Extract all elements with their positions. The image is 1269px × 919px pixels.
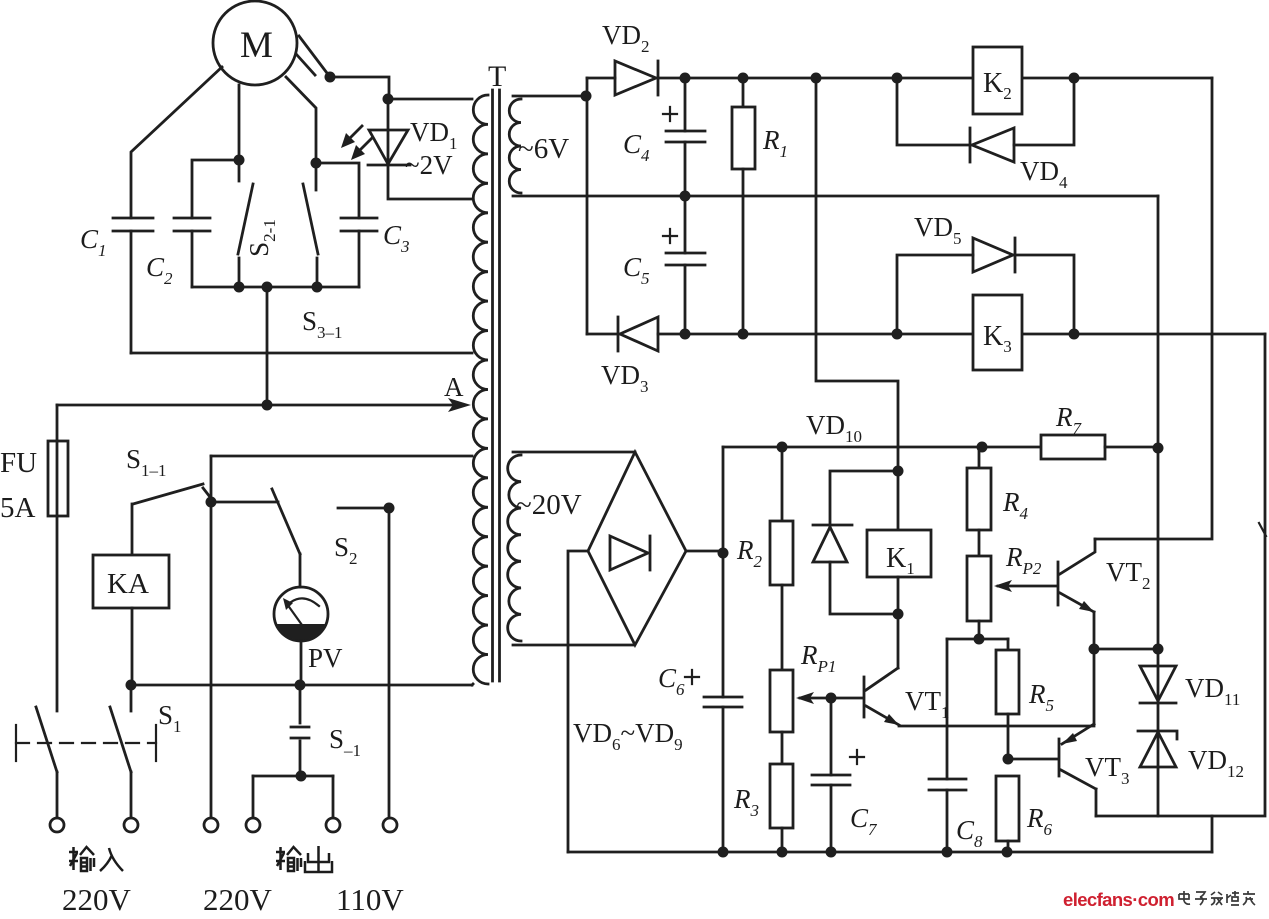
svg-text:5A: 5A [0, 492, 36, 524]
zener VD12 [1138, 731, 1177, 767]
diode VD5 [897, 238, 1074, 334]
terminal 2 [124, 818, 138, 832]
diode VD2 [587, 61, 658, 95]
wire fuse to S1 left pole [56, 516, 59, 711]
diode VD4 [897, 78, 1074, 162]
transformer secondary ~6V winding [509, 99, 521, 193]
wire output tee [253, 776, 333, 818]
diode VD3 [587, 317, 658, 351]
relay K3 [973, 295, 1022, 370]
label shuru (input) hanzi [69, 847, 123, 871]
capacitor C8 [929, 639, 966, 852]
svg-text:PV: PV [308, 643, 343, 673]
motor M [213, 1, 297, 85]
watermark hanzi dianzifashaoyou [1179, 891, 1255, 905]
terminal 6 [383, 818, 397, 832]
wire 110V output branch [388, 508, 391, 818]
switch S1 pole left [36, 707, 57, 818]
terminal 4 [246, 818, 260, 832]
photodiode VD1 [341, 99, 410, 165]
wire bottom rail [568, 851, 1212, 854]
transistor VT3 [1059, 649, 1096, 816]
capacitor C5 [663, 196, 705, 334]
switch S1-1 [133, 484, 210, 504]
wire motor right lead [286, 77, 316, 163]
transistor VT1 [831, 614, 1094, 726]
relay K2 [973, 47, 1022, 114]
terminal 3 [204, 818, 218, 832]
wire VT3 base [1008, 758, 1057, 761]
wire brush to node [330, 77, 389, 99]
wire 220V output branch [210, 456, 213, 818]
capacitor C4 [663, 78, 705, 196]
terminal 5 [326, 818, 340, 832]
switch S2 blade [272, 489, 300, 554]
resistor R6 [996, 776, 1019, 852]
switch S1 pole right [110, 685, 131, 818]
relay K1 [867, 530, 931, 614]
svg-text:FU: FU [0, 447, 37, 479]
wire 20V bottom lead [513, 644, 634, 647]
wire mid-rail drop to VD11 chain [1157, 196, 1160, 816]
wire A-line down to fuse [56, 405, 59, 441]
wire RP2 bottom tee [947, 638, 1008, 641]
diode VD11 [1140, 666, 1176, 703]
relay coil KA [93, 504, 169, 685]
wire motor left lead to C1 [131, 67, 222, 218]
resistor R5 [996, 639, 1019, 759]
terminal 1 [50, 818, 64, 832]
capacitor C3 [316, 163, 377, 287]
transformer T primary winding [473, 95, 488, 684]
wire 6V top vertical [586, 78, 589, 334]
svg-text:KA: KA [107, 568, 149, 600]
wire K3 rail right drop [1096, 334, 1265, 816]
potentiometer RP1 [770, 670, 831, 732]
svg-text:elecfans·com: elecfans·com [1063, 889, 1174, 910]
transistor VT2 [1058, 539, 1095, 649]
svg-text:T: T [488, 60, 506, 93]
fuse FU 5A [48, 441, 68, 516]
wire bottom rail to transformer [130, 684, 472, 687]
svg-text:220V: 220V [62, 882, 132, 917]
svg-text:110V: 110V [336, 882, 404, 917]
wire right drop to VT2 collector [1095, 78, 1212, 539]
label shuchu (output) hanzi [276, 846, 332, 872]
wire VD10 rail [723, 446, 1041, 449]
wire switch common bottom [192, 286, 359, 289]
switch S2-1 [238, 160, 253, 287]
node A wire with arrow [57, 398, 471, 412]
potentiometer RP2 [967, 556, 1056, 639]
wire node to transformer top [388, 98, 472, 101]
capacitor C1 [113, 218, 153, 353]
wire S2 right contact to 110V line [338, 507, 389, 510]
svg-text:~6V: ~6V [518, 133, 569, 165]
bridge rectifier VD6~VD9 [588, 452, 686, 645]
wire bridge + output [686, 550, 723, 553]
switch S3-1 [303, 163, 318, 287]
wire 6V+ feed to K1 [816, 78, 898, 532]
svg-text:~20V: ~20V [516, 489, 582, 521]
transformer secondary ~20V winding [508, 455, 521, 641]
capacitor C2 [174, 160, 239, 287]
resistor R3 [770, 732, 793, 852]
wire 20V top lead [513, 451, 635, 454]
wire motor middle lead [238, 85, 241, 160]
capacitor C7 [812, 698, 864, 852]
wire C1 bottom rail to transformer [131, 352, 472, 355]
resistor R2 [770, 447, 793, 670]
svg-text:M: M [240, 25, 273, 66]
S1 linkage dashed bar [16, 725, 156, 761]
wire mid rail (6V winding bottom) [513, 195, 1158, 198]
brush arm double line [299, 36, 330, 77]
wire tap to transformer at 456 [211, 455, 472, 458]
zener VD10 across K1 [813, 471, 898, 614]
svg-text:~2V: ~2V [405, 150, 453, 180]
wire 6V top lead [513, 95, 586, 98]
wire top rail +6V [658, 77, 1212, 80]
wire S2 left contact [211, 501, 278, 504]
wire K3 rail [658, 333, 1265, 336]
resistor R1 [732, 78, 755, 334]
wire bridge - to bottom rail [568, 551, 588, 852]
svg-text:A: A [444, 372, 464, 402]
svg-text:220V: 220V [203, 882, 273, 917]
wire to node A line [266, 287, 269, 405]
scan tick artifact [1259, 523, 1266, 536]
wire VT2 emitter to VD11 node [1094, 648, 1158, 651]
wire bottom-rail right stub [1211, 816, 1214, 852]
meter PV [274, 554, 328, 685]
resistor R7 [1041, 435, 1158, 459]
switch S-1 [291, 685, 309, 776]
resistor R4 [967, 447, 991, 556]
wire primary bottom lead [472, 684, 473, 685]
transformer T core [493, 90, 500, 681]
wire VD1 bottom to transformer [388, 165, 472, 199]
wire 20V dc positive riser / C6 [704, 447, 742, 852]
